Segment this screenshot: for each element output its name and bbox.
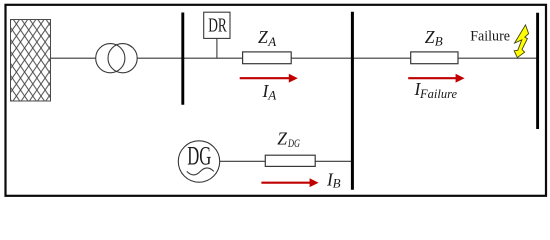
svg-text:DG: DG bbox=[287, 138, 300, 150]
svg-text:Failure: Failure bbox=[470, 28, 510, 44]
svg-text:Z: Z bbox=[258, 27, 268, 47]
svg-text:DR: DR bbox=[208, 15, 227, 37]
svg-text:B: B bbox=[333, 175, 341, 190]
svg-text:Z: Z bbox=[277, 129, 287, 149]
svg-text:A: A bbox=[267, 34, 276, 49]
svg-text:Z: Z bbox=[425, 27, 435, 47]
svg-text:A: A bbox=[267, 88, 276, 103]
svg-text:Failure: Failure bbox=[419, 87, 457, 101]
svg-text:DG: DG bbox=[187, 142, 211, 171]
svg-text:B: B bbox=[435, 33, 443, 48]
